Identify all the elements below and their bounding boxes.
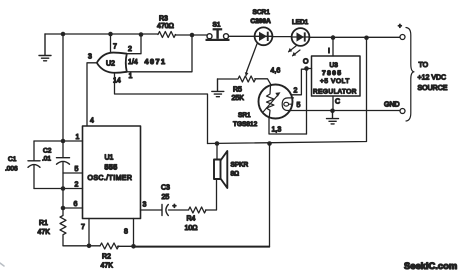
svg-text:O: O: [303, 59, 309, 66]
wire U1 pin1: [34, 140, 83, 142]
ground: [39, 34, 51, 61]
node R3 right junction: [190, 33, 195, 38]
wire U1 pin8: [133, 219, 135, 247]
svg-text:4,6: 4,6: [271, 68, 281, 75]
ground under R5: [212, 79, 224, 97]
svg-text:LED1: LED1: [292, 19, 309, 26]
svg-text:47K: 47K: [38, 229, 51, 236]
node pin7 junction: [87, 244, 92, 249]
ground under U3: [327, 111, 339, 124]
node pin8 junction: [131, 244, 136, 249]
resistor R1: [60, 208, 66, 246]
svg-text:47K: 47K: [101, 263, 114, 270]
svg-text:2: 2: [75, 182, 79, 189]
node speaker junction: [215, 141, 220, 146]
R5 wiper arrow: [246, 71, 247, 75]
svg-text:SR1: SR1: [238, 112, 251, 119]
svg-text:+12 VDC: +12 VDC: [418, 75, 447, 82]
svg-text:1/4: 1/4: [128, 59, 138, 66]
wire gate pin 1: [127, 35, 192, 72]
wire gate pin 2: [127, 35, 141, 54]
corner mark: [0, 263, 4, 266]
svg-text:25: 25: [162, 194, 170, 201]
svg-text:6: 6: [74, 201, 78, 208]
wire Vcc down to pin8 line: [134, 144, 270, 248]
wire U1 pin6: [63, 207, 83, 209]
node A junction left vertical: [61, 32, 66, 37]
svg-text:2: 2: [294, 88, 298, 95]
potentiometer R5: [218, 76, 256, 82]
timer U1 555: [83, 126, 141, 219]
svg-text:1: 1: [76, 134, 80, 141]
node U3 input junction: [331, 35, 336, 40]
svg-text:+: +: [398, 23, 402, 30]
svg-text:25K: 25K: [232, 95, 245, 102]
svg-text:2: 2: [128, 46, 132, 53]
svg-text:5: 5: [75, 166, 79, 173]
node pin2 junction: [61, 186, 66, 191]
svg-text:REGULATOR: REGULATOR: [313, 88, 357, 95]
wire pin2 to pin6: [62, 189, 64, 209]
svg-text:8: 8: [124, 229, 128, 236]
op-amp U2 OR gate: [97, 53, 127, 73]
wire bottom row: [63, 245, 270, 248]
svg-text:R1: R1: [39, 220, 48, 227]
svg-text:470Ω: 470Ω: [157, 23, 174, 30]
node pin1/C2 junction: [61, 139, 66, 144]
svg-text:7: 7: [113, 44, 117, 51]
svg-text:7805: 7805: [322, 70, 342, 77]
svg-text:TGS812: TGS812: [233, 121, 258, 128]
svg-text:OSC./TIMER: OSC./TIMER: [88, 175, 133, 182]
svg-text:7: 7: [81, 224, 85, 231]
node U3 common junction: [330, 109, 335, 114]
svg-text:3: 3: [88, 54, 92, 61]
wire gate pin 7: [110, 34, 112, 53]
wire O vertical down: [306, 69, 308, 135]
wire + rail down to V+ line: [208, 38, 367, 144]
svg-text:C1: C1: [8, 156, 17, 163]
svg-text:R2: R2: [102, 254, 111, 261]
wire left vertical to pin1: [62, 34, 64, 141]
node pin6 junction: [61, 206, 66, 211]
svg-text:555: 555: [105, 165, 118, 172]
wire C3 to R4: [169, 209, 189, 211]
resistor R2: [100, 243, 119, 249]
wire SCR gate to R5 wiper: [247, 44, 257, 71]
svg-text:SCR1: SCR1: [253, 9, 271, 16]
svg-text:1,3: 1,3: [272, 127, 282, 134]
switch S1: [207, 34, 229, 39]
wire ground rail top-left: [45, 34, 207, 35]
svg-text:U2: U2: [106, 61, 115, 68]
SCR1: [255, 27, 273, 45]
wire GND line: [288, 110, 400, 112]
GND terminal: [400, 109, 405, 114]
capacitor C1: [33, 141, 35, 189]
LED arrows: [289, 46, 301, 56]
wire SR1 pin2: [291, 69, 306, 95]
speaker SPKR: [216, 144, 218, 160]
regulator U3 7805: [312, 56, 361, 96]
node Vcc-down junction: [267, 141, 272, 146]
svg-text:SeekIC.com: SeekIC.com: [404, 260, 457, 271]
wire gate pin 14 to V+ line: [115, 73, 208, 144]
wire U3 input pin: [332, 38, 334, 56]
wire U1 pin2: [34, 188, 83, 190]
node O junction: [304, 66, 309, 71]
SR1 electrode: [282, 98, 293, 111]
svg-text:4: 4: [90, 118, 94, 125]
svg-text:S1: S1: [213, 21, 221, 28]
svg-text:SPKR: SPKR: [231, 162, 249, 169]
svg-text:I: I: [328, 48, 330, 55]
wire U3 common pin: [332, 96, 334, 111]
wire SR1 bottom 1,3: [269, 117, 307, 134]
wire SCR to LED: [272, 36, 291, 38]
svg-text:4071: 4071: [145, 57, 167, 66]
svg-text:.01: .01: [42, 156, 51, 163]
node gate pin2 junction: [139, 32, 144, 37]
svg-text:TO: TO: [419, 62, 429, 69]
SR1 arrow: [264, 96, 278, 112]
svg-text:R3: R3: [159, 16, 168, 23]
svg-text:8Ω: 8Ω: [231, 171, 240, 178]
svg-text:+5 VOLT: +5 VOLT: [320, 78, 350, 85]
svg-text:5: 5: [297, 102, 301, 109]
svg-text:3: 3: [143, 202, 147, 209]
svg-text:U1: U1: [105, 155, 114, 162]
svg-text:1: 1: [129, 73, 133, 80]
svg-text:R4: R4: [187, 216, 196, 223]
svg-text:C: C: [335, 99, 340, 106]
wire U1 pin3 output: [141, 209, 162, 211]
node gate pin7 junction: [108, 32, 113, 37]
svg-text:SOURCE: SOURCE: [418, 85, 448, 92]
+ terminal: [400, 35, 405, 40]
svg-text:R5: R5: [233, 87, 242, 94]
svg-text:GND: GND: [384, 102, 400, 109]
LED1: [292, 28, 310, 46]
resistor R4: [189, 207, 206, 213]
wire U3 output stub: [307, 68, 312, 70]
svg-text:+: +: [173, 203, 177, 210]
wire top rail to + terminal: [309, 36, 400, 38]
node right vertical junction: [364, 36, 369, 41]
svg-text:C206A: C206A: [251, 18, 272, 25]
svg-text:U3: U3: [330, 62, 339, 69]
capacitor C3: [161, 205, 163, 216]
capacitor C2: [62, 141, 64, 189]
svg-text:C2: C2: [43, 148, 52, 155]
svg-text:.006: .006: [5, 166, 18, 173]
wire gate output pin3 to U1 pin4: [87, 63, 97, 126]
brace: [406, 28, 414, 122]
svg-text:10Ω: 10Ω: [185, 225, 198, 232]
wire R4 to speaker: [206, 180, 217, 211]
wire U1 pin5 stub: [63, 172, 83, 174]
resistor R3: [158, 32, 175, 38]
wire U1 pin7: [88, 219, 90, 246]
SR1 heater zigzag: [267, 86, 274, 118]
gas sensor SR1: [259, 85, 293, 119]
svg-text:C3: C3: [161, 185, 170, 192]
